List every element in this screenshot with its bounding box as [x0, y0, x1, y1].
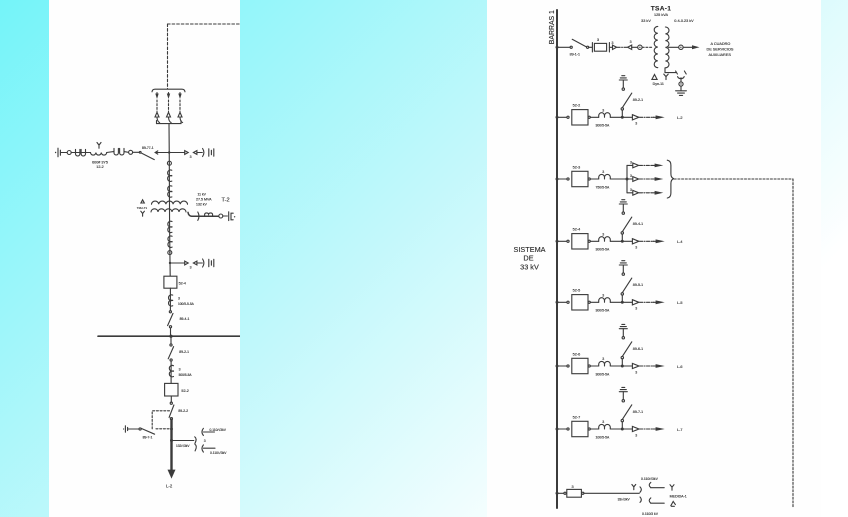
- svg-text:Dyn-11: Dyn-11: [653, 82, 664, 86]
- disconnect 89-2-2 contact: [170, 418, 172, 420]
- svg-text:600# 3Y5: 600# 3Y5: [92, 161, 108, 165]
- bus 132kV horizontal: [98, 335, 240, 337]
- contact: [622, 212, 624, 214]
- svg-text:100/5-5-5A: 100/5-5-5A: [178, 302, 195, 306]
- contact: [621, 293, 623, 295]
- svg-text:500/5-5A: 500/5-5A: [179, 373, 193, 377]
- instrument circle: [129, 150, 133, 154]
- node: [170, 439, 173, 442]
- drawout arrow right: [633, 163, 639, 168]
- disconnect 89-2-1 blade: [622, 93, 631, 108]
- node: [621, 301, 624, 304]
- svg-text:89-77-1: 89-77-1: [142, 146, 154, 150]
- svg-text:125 kVA: 125 kVA: [654, 13, 669, 17]
- node bus tap TSA: [556, 46, 559, 49]
- phase 1 dashed wire: [156, 100, 158, 112]
- wire: [680, 78, 682, 82]
- wire: [627, 178, 633, 180]
- node bus tap 52-3: [556, 178, 559, 181]
- node: [621, 365, 624, 368]
- wire tertiary tail: [188, 212, 219, 216]
- wire: [680, 86, 682, 90]
- svg-text:132 kV: 132 kV: [196, 203, 208, 207]
- svg-text:MEDIDA-1: MEDIDA-1: [670, 494, 687, 498]
- wire dashed top vertical: [167, 24, 169, 89]
- svg-text:DE SERVICIOS: DE SERVICIOS: [707, 47, 734, 51]
- svg-text:3: 3: [602, 293, 604, 297]
- svg-text:L-2: L-2: [166, 484, 173, 489]
- antenna Y symbol: [97, 143, 101, 149]
- svg-text:52-4: 52-4: [573, 228, 581, 232]
- phase 3 hook: [180, 118, 183, 123]
- feeder arrow L-5: [653, 301, 656, 303]
- svg-text:89-2-2: 89-2-2: [178, 409, 188, 413]
- disconnect 89-7-1 blade: [141, 428, 154, 434]
- svg-text:3: 3: [630, 188, 632, 192]
- svg-text:3: 3: [635, 370, 637, 374]
- PT secondary brace bottom: [202, 445, 203, 452]
- CT bushing: [599, 361, 611, 366]
- drawout arrow right: [613, 45, 617, 49]
- drawout arrow right: [633, 177, 639, 182]
- wire: [621, 110, 623, 117]
- fuse 3 bars: [592, 43, 609, 52]
- svg-text:52-6: 52-6: [573, 352, 581, 356]
- wire: [627, 192, 633, 194]
- wire secondary out: [668, 46, 678, 48]
- svg-text:89-7-1: 89-7-1: [633, 410, 643, 414]
- fuse link: [205, 213, 213, 217]
- node main junction: [168, 151, 170, 153]
- wire: [169, 288, 171, 311]
- drawout arrow right: [633, 190, 639, 195]
- svg-text:3: 3: [597, 37, 600, 42]
- CT winding arcs: [168, 221, 172, 232]
- wire: [590, 428, 598, 430]
- wire: [610, 178, 627, 180]
- wire dash-dot: [639, 164, 653, 166]
- arrow to services: [692, 45, 700, 49]
- breaker 52-5: [572, 295, 588, 310]
- wire fan vertical: [626, 165, 628, 192]
- CT bushing: [599, 424, 611, 429]
- CT bushing: [599, 298, 611, 303]
- disconnect 89-4-1 blade: [622, 217, 631, 232]
- svg-text:DE: DE: [523, 254, 533, 263]
- disconnect 89-1-1 contact: [587, 46, 589, 48]
- disconnect 89-4-1 blade: [168, 313, 173, 325]
- ground symbol above 89-5-1: [619, 261, 627, 265]
- wire: [203, 431, 214, 433]
- svg-text:3: 3: [602, 108, 604, 112]
- svg-text:89-5-1: 89-5-1: [633, 283, 643, 287]
- contact: [567, 301, 569, 303]
- node bus tap 52-2: [556, 116, 559, 119]
- svg-text:3: 3: [635, 307, 637, 311]
- wire: [622, 329, 624, 337]
- drawout arrow left: [193, 261, 197, 265]
- wire dashed interlock: [152, 411, 170, 429]
- feeder arrow L-6: [653, 365, 656, 367]
- node: [621, 240, 624, 243]
- drawout arrow right: [632, 115, 639, 120]
- node: [170, 428, 173, 431]
- ground symbol above 89-2-1: [619, 76, 627, 80]
- wire neutral tail: [665, 68, 676, 73]
- svg-text:100/5-5A: 100/5-5A: [596, 435, 610, 439]
- node: [621, 428, 624, 431]
- wye symbol: [632, 485, 636, 490]
- wire dash-dot: [640, 301, 654, 303]
- instrument circle: [219, 214, 223, 218]
- svg-text:3: 3: [204, 439, 206, 443]
- wire: [557, 428, 567, 430]
- open delta symbol: [671, 501, 676, 506]
- svg-text:3: 3: [602, 420, 604, 424]
- wave trap 1: [76, 149, 86, 156]
- delta symbol: [652, 75, 657, 80]
- svg-text:132/√3kV: 132/√3kV: [176, 444, 190, 448]
- contact: [588, 240, 590, 242]
- neutral link: [676, 71, 687, 79]
- transformer T-2 primary winding: [152, 201, 188, 204]
- svg-text:T-2: T-2: [222, 198, 230, 204]
- svg-text:3: 3: [635, 433, 637, 437]
- svg-text:TRU-T1: TRU-T1: [137, 206, 148, 210]
- drawout arrow left: [193, 151, 197, 155]
- svg-text:3: 3: [190, 155, 192, 159]
- svg-text:750/5-5A: 750/5-5A: [596, 185, 610, 189]
- phase 1 hook: [157, 118, 160, 123]
- svg-text:3: 3: [630, 40, 632, 44]
- ground symbol above 89-7-1: [619, 387, 627, 391]
- wire: [590, 178, 598, 180]
- wire: [622, 204, 624, 212]
- instrument circle: [67, 151, 71, 155]
- wire: [557, 365, 567, 367]
- wire: [621, 359, 623, 366]
- disconnect 89-77-1 blade: [141, 153, 154, 160]
- svg-text:L-7: L-7: [677, 428, 683, 432]
- PT brace: [198, 212, 199, 220]
- CT winding arcs: [168, 170, 172, 181]
- wire: [557, 116, 567, 118]
- svg-text:3: 3: [571, 485, 573, 489]
- wire: [223, 215, 228, 217]
- wire: [621, 422, 623, 429]
- wire dash-dot: [640, 428, 654, 430]
- PT brace: [203, 149, 204, 157]
- svg-text:L-2: L-2: [677, 116, 683, 120]
- terminal bars: [229, 212, 234, 221]
- contact: [567, 365, 569, 367]
- CT bushing: [599, 113, 611, 118]
- disconnect 89-1-1 blade: [572, 39, 586, 47]
- svg-text:3: 3: [602, 170, 604, 174]
- disconnect 89-2-1 contact: [170, 344, 172, 346]
- drawout arrow right: [185, 261, 189, 265]
- breaker 52-7: [572, 421, 588, 436]
- wire: [107, 151, 129, 154]
- contact: [622, 400, 624, 402]
- disconnect 89-2-2 blade: [169, 405, 174, 417]
- svg-text:89-4-1: 89-4-1: [180, 317, 190, 321]
- capacitor bars: [209, 149, 214, 156]
- phase 2 arrow down: [168, 93, 170, 96]
- contact: [588, 428, 590, 430]
- node bus tap medida: [556, 492, 559, 495]
- wire: [170, 396, 172, 402]
- drawout arrow right: [632, 363, 639, 368]
- wire: [610, 301, 632, 303]
- contact arrow: [155, 151, 158, 154]
- ground symbol above 89-4-1: [619, 200, 627, 204]
- contact: [582, 492, 584, 494]
- contact: [621, 356, 623, 358]
- contact: [621, 232, 623, 234]
- disconnect 89-7-1 contact: [139, 428, 141, 430]
- disconnect 89-4-1 contact: [169, 311, 171, 313]
- disconnect 89-5-1 blade: [622, 278, 631, 293]
- contact: [567, 178, 569, 180]
- fuse box: [594, 43, 606, 51]
- contact: [622, 88, 624, 90]
- svg-text:89-2-1: 89-2-1: [633, 98, 643, 102]
- svg-text:3: 3: [630, 160, 632, 164]
- svg-text:3: 3: [178, 296, 180, 300]
- wire: [609, 46, 612, 48]
- wire: [622, 80, 624, 88]
- svg-text:L-6: L-6: [677, 365, 683, 369]
- breaker 52-4: [572, 234, 588, 249]
- phase 1 hollow arrowhead up: [155, 112, 159, 117]
- contact: [588, 116, 590, 118]
- svg-text:52-3: 52-3: [573, 165, 581, 169]
- disconnect 89-4-1 contact: [169, 326, 171, 328]
- phase 3 dashed wire: [179, 100, 181, 112]
- PT secondary brace bottom: [649, 498, 651, 503]
- CT winding arcs: [168, 236, 172, 247]
- disconnect 89-2-1 blade: [168, 347, 173, 359]
- wire: [590, 240, 598, 242]
- right scan panel: [487, 0, 821, 517]
- contact: [567, 116, 569, 118]
- wire east branch: [170, 262, 185, 264]
- ground 89-7-1: [123, 428, 124, 429]
- drawout arrow right: [632, 239, 639, 244]
- breaker 52-2: [165, 383, 178, 396]
- breaker 52-2: [572, 110, 588, 125]
- drawout arrow left: [628, 45, 632, 49]
- feeder arrow: [652, 178, 655, 180]
- wye symbol: [141, 211, 145, 216]
- svg-text:0.110/3 kV: 0.110/3 kV: [642, 512, 659, 516]
- wire dashed long to right: [674, 178, 793, 180]
- instrument transformer circle: [168, 251, 172, 255]
- svg-text:3: 3: [612, 41, 614, 45]
- phase 2 hollow arrowhead up: [167, 112, 171, 117]
- drawout arrow right: [632, 426, 639, 431]
- wire PT tap: [172, 440, 194, 442]
- disconnect 89-1-1 contact: [570, 46, 572, 48]
- phase 3 hollow arrowhead up: [178, 112, 182, 117]
- disconnect 89-7-1 blade: [622, 405, 631, 420]
- contact: [588, 365, 590, 367]
- instrument circle: [638, 45, 642, 49]
- wire: [71, 152, 90, 154]
- wire: [557, 492, 564, 494]
- wire: [627, 164, 633, 166]
- disconnect 89-2-1 contact: [170, 359, 172, 361]
- wire: [610, 428, 632, 430]
- wire: [557, 178, 567, 180]
- wire dash-dot: [640, 116, 654, 118]
- svg-text:3: 3: [190, 266, 192, 270]
- PT primary brace lower: [195, 444, 196, 451]
- contact: [567, 240, 569, 242]
- svg-text:BARRAS 1: BARRAS 1: [549, 10, 556, 44]
- wire: [170, 328, 172, 336]
- svg-text:AUXILIARES: AUXILIARES: [709, 53, 732, 57]
- wire: [197, 152, 202, 154]
- wire dash-dot: [639, 178, 653, 180]
- feeder arrow L-7: [653, 428, 656, 430]
- node bus tap 52-4: [556, 240, 559, 243]
- wire dash-dot: [640, 365, 654, 367]
- PT secondary brace top: [202, 428, 203, 435]
- svg-text:89-2-1: 89-2-1: [179, 350, 189, 354]
- contact: [622, 337, 624, 339]
- svg-text:3: 3: [602, 232, 604, 236]
- wire dashed down right side: [792, 179, 794, 507]
- wye symbol secondary: [670, 485, 674, 491]
- svg-text:TSA-1: TSA-1: [651, 6, 672, 13]
- CT winding arcs: [169, 295, 173, 306]
- svg-text:L-4: L-4: [677, 240, 683, 244]
- contact: [621, 108, 623, 110]
- svg-text:89-4-1: 89-4-1: [633, 222, 643, 226]
- svg-text:3: 3: [179, 367, 181, 371]
- coupling capacitor end: [55, 152, 56, 153]
- breaker 52-4: [164, 276, 177, 288]
- node bus tap 52-7: [556, 428, 559, 431]
- svg-text:89-6-1: 89-6-1: [633, 347, 643, 351]
- contact: [567, 428, 569, 430]
- wire: [622, 265, 624, 273]
- svg-text:33 kV: 33 kV: [520, 263, 539, 272]
- wire: [632, 46, 638, 48]
- wire east branch: [169, 152, 185, 154]
- wire: [128, 428, 139, 430]
- feeder arrow: [652, 192, 655, 194]
- PT primary brace upper: [195, 437, 196, 444]
- wire: [610, 365, 632, 367]
- wire: [60, 152, 67, 154]
- svg-text:12-2: 12-2: [96, 165, 103, 169]
- wire dashed top horizontal: [168, 23, 241, 25]
- wire: [170, 361, 172, 383]
- wire: [621, 234, 623, 241]
- PT primary brace bottom: [640, 497, 641, 502]
- instrument circle: [679, 45, 683, 49]
- wire junction west: [155, 152, 169, 154]
- instrument circle: [679, 82, 683, 86]
- node: [621, 116, 624, 119]
- node bus junction: [169, 335, 172, 338]
- drawout arrow right: [632, 300, 639, 305]
- phase 2 hook: [169, 118, 172, 123]
- bus BARRAS 1 vertical: [556, 10, 558, 508]
- wye symbol: [664, 74, 668, 80]
- disconnect 89-6-1 blade: [622, 342, 631, 357]
- svg-text:300/5-5A: 300/5-5A: [596, 124, 610, 128]
- wire: [683, 46, 692, 48]
- feeder arrow: [652, 164, 655, 166]
- brace group: [667, 160, 674, 198]
- contact: [564, 492, 566, 494]
- phase 3 arrow down: [179, 93, 181, 96]
- wire: [610, 116, 632, 118]
- node junction: [169, 262, 171, 264]
- wire: [557, 301, 567, 303]
- drawout arrow right: [185, 151, 189, 155]
- transformer T-2 secondary winding: [151, 209, 186, 212]
- wire: [197, 262, 202, 264]
- wire dash-dot: [639, 192, 653, 194]
- wire: [133, 151, 140, 153]
- svg-text:89-1-1: 89-1-1: [570, 52, 580, 56]
- wire: [621, 295, 623, 302]
- node bus tap 52-5: [556, 301, 559, 304]
- disconnect 89-77-1 contact: [139, 151, 141, 153]
- wire: [590, 365, 598, 367]
- transformer TSA-1 primary winding: [654, 26, 658, 67]
- PT brace: [203, 259, 204, 267]
- breaker 52-3: [572, 171, 588, 186]
- svg-text:3: 3: [635, 122, 637, 126]
- svg-text:3: 3: [630, 174, 632, 178]
- ground TSA neutral: [676, 91, 687, 96]
- svg-text:89-7-1: 89-7-1: [143, 436, 153, 440]
- wire: [170, 336, 172, 344]
- line reactor 600#: [91, 153, 107, 156]
- CT bushing: [599, 174, 611, 179]
- wire: [203, 447, 215, 449]
- svg-text:52-5: 52-5: [573, 289, 581, 293]
- wire main vertical upper: [169, 124, 170, 276]
- CT winding arcs: [169, 365, 173, 376]
- svg-text:300/5-5A: 300/5-5A: [596, 309, 610, 313]
- svg-text:3: 3: [635, 246, 637, 250]
- svg-text:300/5-5A: 300/5-5A: [596, 248, 610, 252]
- node fanout: [626, 178, 629, 181]
- svg-text:52-7: 52-7: [573, 415, 581, 419]
- svg-text:33/√3kV: 33/√3kV: [618, 497, 631, 501]
- breaker 52-6: [572, 358, 588, 373]
- svg-text:27.5 MVA: 27.5 MVA: [196, 198, 212, 202]
- wire long: [584, 492, 639, 494]
- feeder arrow L-4: [653, 240, 656, 242]
- svg-text:52-2: 52-2: [181, 389, 188, 393]
- svg-text:0.4-0.23 kV: 0.4-0.23 kV: [674, 19, 694, 23]
- CT bushing: [599, 237, 611, 242]
- wire main bold line: [170, 420, 172, 471]
- phase 2 dashed wire: [168, 100, 170, 112]
- disconnect 89-2-2 contact: [170, 402, 172, 404]
- svg-text:0.110/√3kV: 0.110/√3kV: [210, 451, 227, 455]
- svg-text:0.110/√3kV: 0.110/√3kV: [210, 428, 227, 432]
- wire dash-dot: [617, 46, 627, 48]
